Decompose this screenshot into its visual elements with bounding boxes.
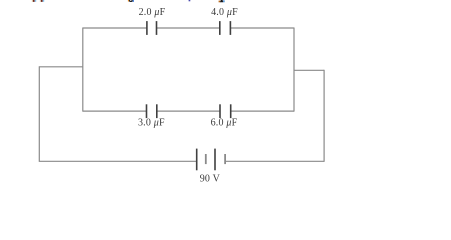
wire: bottom left to battery: [39, 160, 196, 162]
capacitor C1 2.0 uF plates: [147, 21, 157, 35]
svg-text:3.0 μF: 3.0 μF: [138, 117, 165, 128]
capacitor C3 3.0 uF plates: [147, 104, 157, 118]
wire: outer right vertical: [323, 70, 325, 162]
wire: inner rect right vertical: [293, 28, 295, 112]
battery 90 V: [197, 149, 225, 171]
capacitor C2 4.0 uF plates: [220, 21, 231, 35]
cropped dot fragment: [189, 0, 191, 1]
wire: outer left vertical: [38, 66, 40, 162]
svg-text:4.0 μF: 4.0 μF: [211, 7, 238, 18]
wire: bottom branch right segment: [231, 110, 294, 112]
cropped text fragment top-left: [32, 0, 44, 2]
wire: battery to bottom right: [225, 160, 324, 162]
wire: top branch middle segment: [157, 27, 220, 29]
wire: bottom branch left segment: [83, 110, 147, 112]
wire: right stub node B: [294, 69, 324, 71]
wire: top branch left segment: [83, 27, 147, 29]
wire: inner rect left vertical: [82, 28, 84, 112]
capacitor C4 6.0 uF plates: [220, 104, 231, 118]
cropped descender tip fragment: [219, 0, 225, 2]
wire: top branch right segment: [230, 27, 294, 29]
svg-text:90 V: 90 V: [200, 174, 221, 185]
wire: bottom branch middle segment: [157, 110, 220, 112]
cropped descender of letter g top-middle: [128, 0, 134, 2]
wire: left stub node A: [39, 66, 83, 68]
svg-text:2.0 μF: 2.0 μF: [139, 7, 166, 18]
svg-text:6.0 μF: 6.0 μF: [211, 117, 238, 128]
